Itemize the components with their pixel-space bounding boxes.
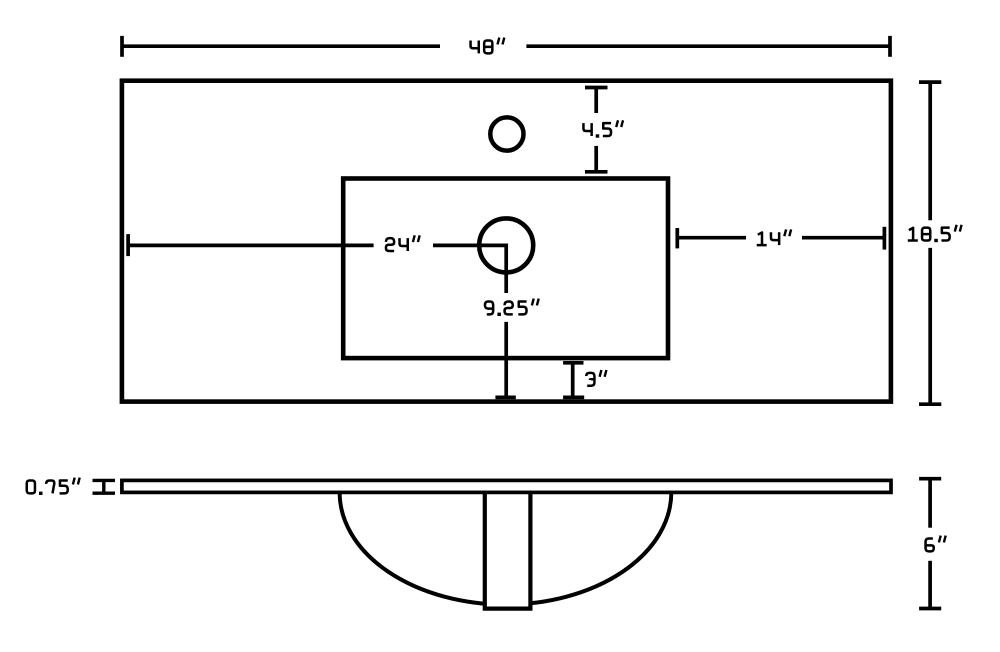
dimension 9.25in line upper segment (from drain center) bbox=[504, 245, 508, 293]
dimension 0.75in I-beam vertical bbox=[102, 480, 105, 493]
dimension 48in right tick bbox=[888, 36, 892, 57]
dimension 4.5in line upper segment bbox=[594, 88, 598, 114]
dimension 14in left tick bbox=[675, 228, 679, 248]
label 6in bbox=[926, 536, 946, 552]
dimension 6in top tick bbox=[919, 477, 941, 481]
drain pipe (front view, white fill covers bowl arc) bbox=[485, 489, 531, 609]
dimension 4.5in bottom tick bbox=[585, 170, 608, 174]
label 4.5in bbox=[583, 120, 623, 137]
dimension 48in left tick bbox=[120, 36, 124, 57]
label 9.25in bbox=[485, 299, 539, 316]
dimension 48in line left segment bbox=[122, 44, 440, 48]
dimension 4.5in line lower segment bbox=[594, 146, 598, 172]
dimension 18.5in bottom tick bbox=[919, 402, 941, 406]
dimension 9.25in line lower segment bbox=[504, 322, 508, 398]
label 48in bbox=[471, 38, 505, 54]
dimension 3in top tick bbox=[563, 361, 583, 365]
dimension 24in line right segment bbox=[433, 244, 508, 248]
dimension 24in line left segment bbox=[128, 244, 374, 248]
countertop outer rectangle (plan view) bbox=[122, 81, 891, 402]
dimension 6in bottom tick bbox=[919, 607, 941, 611]
dimension 14in line left segment bbox=[677, 236, 746, 240]
dimension 6in line lower segment bbox=[928, 561, 932, 609]
dimension 4.5in top tick bbox=[585, 86, 608, 90]
dimension 9.25in bottom tick bbox=[495, 396, 515, 400]
sink cutout inner rectangle (plan view) bbox=[343, 179, 668, 359]
dimension 6in line upper segment bbox=[928, 479, 932, 528]
dimension 0.75in I-beam bottom tick bbox=[93, 492, 116, 495]
dimension 24in left tick bbox=[126, 234, 130, 256]
drain hole circle bbox=[479, 218, 533, 272]
dimension 14in right tick bbox=[883, 227, 887, 250]
label 24in bbox=[386, 235, 420, 251]
dimension 18.5in line lower segment bbox=[928, 248, 932, 404]
countertop slab (front view) bbox=[122, 480, 891, 492]
dimension 18.5in top tick bbox=[919, 80, 941, 84]
dimension 48in line right segment bbox=[526, 44, 890, 48]
dimension 0.75in I-beam top tick bbox=[93, 479, 116, 482]
faucet hole circle bbox=[490, 117, 523, 150]
label 14in bbox=[757, 229, 791, 245]
label 0.75in bbox=[27, 478, 80, 495]
dimension 14in line right segment bbox=[802, 236, 884, 240]
basin bowl arc (front view) bbox=[340, 492, 672, 604]
dimension 3in line segment bbox=[571, 363, 575, 398]
dimension 3in bottom tick bbox=[563, 396, 584, 400]
dimension 18.5in line upper segment bbox=[928, 82, 932, 220]
label 3in bbox=[586, 370, 606, 386]
label 18.5in bbox=[908, 225, 962, 242]
